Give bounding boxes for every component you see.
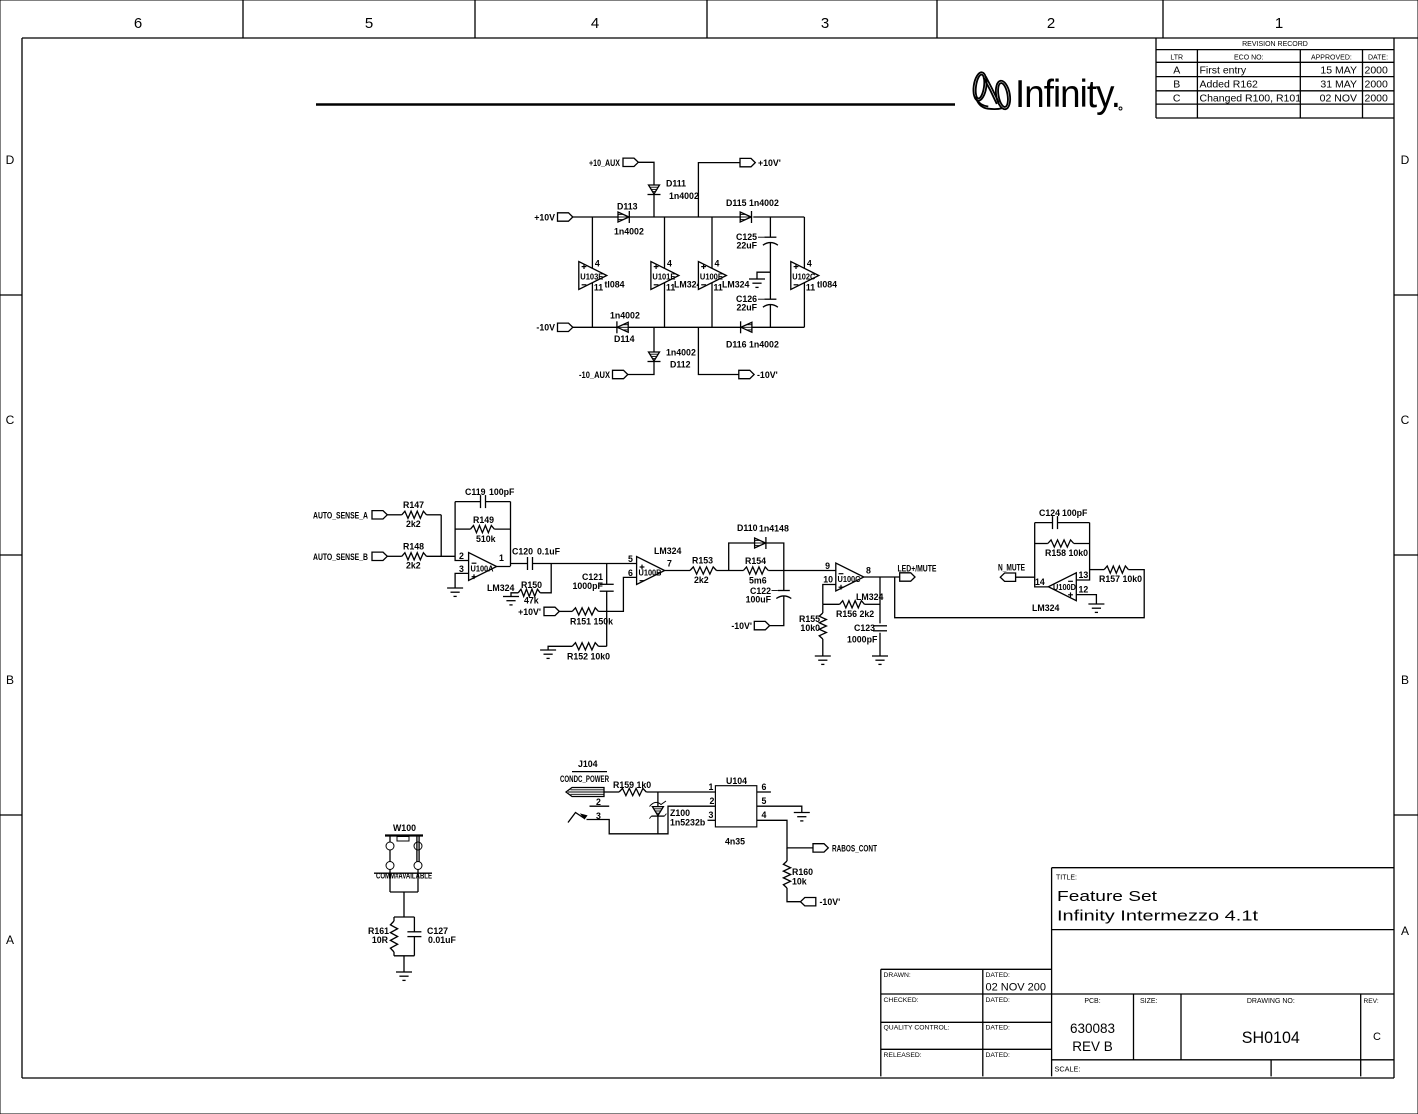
svg-text:D113: D113 xyxy=(617,202,638,212)
svg-text:+10_AUX: +10_AUX xyxy=(589,158,620,168)
capacitor C125 22uF xyxy=(736,232,778,251)
svg-text:DATE:: DATE: xyxy=(1368,54,1388,61)
wire R147 to junction xyxy=(427,514,442,516)
svg-text:REVISION RECORD: REVISION RECORD xyxy=(1242,41,1308,48)
svg-text:REV:: REV: xyxy=(1364,998,1379,1005)
svg-text:D116: D116 xyxy=(726,340,747,350)
svg-text:0.1uF: 0.1uF xyxy=(537,547,561,557)
net LED+/MUTE flag xyxy=(898,564,937,582)
connector W100 xyxy=(385,823,423,870)
svg-text:1n4002: 1n4002 xyxy=(614,227,644,237)
svg-text:RELEASED:: RELEASED: xyxy=(884,1052,922,1059)
svg-text:11: 11 xyxy=(806,282,815,292)
svg-text:Infinity.: Infinity. xyxy=(1015,73,1120,116)
svg-text:2: 2 xyxy=(459,551,464,561)
wire to ground (W100 RC) xyxy=(403,956,405,972)
svg-text:U100E: U100E xyxy=(700,273,723,282)
jack pin 2 stub xyxy=(590,797,610,807)
capacitor C126 22uF xyxy=(736,294,778,313)
svg-text:C: C xyxy=(1373,1031,1381,1043)
resistor R150 47k xyxy=(511,564,551,606)
title block xyxy=(881,868,1395,1077)
svg-text:7: 7 xyxy=(667,559,672,569)
zener Z100 1n5232b xyxy=(649,792,705,834)
net N_MUTE flag xyxy=(998,563,1025,582)
diode D112 1n4002 xyxy=(648,348,696,370)
svg-text:0.01uF: 0.01uF xyxy=(428,935,456,945)
resistor R149 510k xyxy=(455,515,510,544)
svg-text:PCB:: PCB: xyxy=(1084,998,1100,1005)
wire U100A pin 3 to ground xyxy=(455,573,469,588)
resistor R153 2k2 xyxy=(690,556,717,586)
svg-text:AUTO_SENSE_A: AUTO_SENSE_A xyxy=(313,510,368,520)
capacitor C123 1000pF xyxy=(847,623,887,645)
svg-text:10k: 10k xyxy=(792,877,807,887)
svg-text:tl084: tl084 xyxy=(817,280,837,290)
wire -10V rail (bottom) xyxy=(573,326,805,328)
svg-text:Added R162: Added R162 xyxy=(1200,79,1259,91)
svg-text:B: B xyxy=(6,673,14,687)
svg-text:QUALITY CONTROL:: QUALITY CONTROL: xyxy=(884,1025,950,1032)
wire U100B output to R153 xyxy=(665,570,690,572)
wire R159 to U104 pin 1 xyxy=(646,791,715,793)
svg-text:12: 12 xyxy=(1079,584,1089,594)
wire U100C output to R157 (long) xyxy=(895,570,1144,618)
svg-text:1n4002: 1n4002 xyxy=(610,311,640,321)
svg-text:U101E: U101E xyxy=(652,273,675,282)
svg-text:02 NOV 200: 02 NOV 200 xyxy=(986,982,1047,994)
svg-text:R149: R149 xyxy=(473,515,494,525)
ground (U104 pin 5) xyxy=(794,813,810,821)
svg-text:14: 14 xyxy=(1035,577,1045,587)
svg-text:15 MAY: 15 MAY xyxy=(1320,64,1357,76)
op-amp U100E (power pins, LM324) xyxy=(698,217,749,327)
svg-text:1000pF: 1000pF xyxy=(847,635,878,645)
svg-text:100uF: 100uF xyxy=(746,595,772,605)
wire U100A output to C120 xyxy=(497,564,528,567)
resistor R156 2k2 xyxy=(823,601,880,619)
svg-text:D110: D110 xyxy=(737,523,758,533)
resistor R158 10k0 xyxy=(1035,540,1090,558)
svg-text:REV B: REV B xyxy=(1072,1039,1113,1054)
net -10V_prime flag (C122) xyxy=(731,621,769,631)
svg-text:02 NOV: 02 NOV xyxy=(1320,92,1357,104)
svg-text:CHECKED:: CHECKED: xyxy=(884,997,919,1004)
svg-text:1: 1 xyxy=(709,782,714,792)
capacitor C121 1000pF xyxy=(573,572,614,591)
net COMM#AVAILABLE label xyxy=(374,872,432,881)
svg-text:R152 10k0: R152 10k0 xyxy=(567,652,610,662)
svg-text:4: 4 xyxy=(591,15,599,32)
svg-text:R158 10k0: R158 10k0 xyxy=(1045,548,1088,558)
resistor R161 10R xyxy=(368,917,414,956)
svg-text:6: 6 xyxy=(134,15,142,32)
wire U104 pin 5 to ground xyxy=(757,806,802,812)
svg-text:DATED:: DATED: xyxy=(986,972,1011,979)
svg-text:3: 3 xyxy=(459,564,464,574)
svg-text:LTR: LTR xyxy=(1170,54,1183,61)
svg-text:2: 2 xyxy=(596,797,601,807)
wire U100D feedback right vertical / pin 13 xyxy=(1076,523,1089,580)
svg-text:4: 4 xyxy=(807,259,812,269)
wire U100C output xyxy=(864,576,900,578)
svg-text:31 MAY: 31 MAY xyxy=(1320,79,1357,91)
svg-text:C124: C124 xyxy=(1039,508,1060,518)
svg-text:Z100: Z100 xyxy=(670,808,690,818)
net -10V_prime flag (power) xyxy=(739,370,778,380)
diode D113 1n4002 xyxy=(614,202,644,237)
svg-text:U103E: U103E xyxy=(580,273,603,282)
net -10_AUX flag xyxy=(579,370,628,380)
svg-text:CONDC_POWER: CONDC_POWER xyxy=(560,774,609,784)
net +10V_prime flag (R151) xyxy=(518,607,559,617)
svg-text:3: 3 xyxy=(821,15,829,32)
svg-text:4: 4 xyxy=(595,259,600,269)
jack pin 3 tip switch xyxy=(568,811,601,823)
svg-text:13: 13 xyxy=(1079,570,1089,580)
capacitor C119 100pF xyxy=(465,487,515,508)
svg-text:C: C xyxy=(6,413,15,427)
svg-text:3: 3 xyxy=(709,810,714,820)
wire C120 to U100B pin 5 xyxy=(533,563,637,565)
net AUTO_SENSE_A flag xyxy=(313,510,387,520)
svg-text:2: 2 xyxy=(710,796,715,806)
svg-text:U100B: U100B xyxy=(639,569,662,578)
wire U100D feedback left vertical / output xyxy=(1035,523,1049,587)
svg-text:-10_AUX: -10_AUX xyxy=(579,370,610,380)
svg-text:10R: 10R xyxy=(372,935,389,945)
ground (W100 RC) xyxy=(396,972,412,980)
capacitor C120 0.1uF xyxy=(512,547,561,571)
op-amp U100C LM324 xyxy=(823,561,883,602)
net RABOS_CONT flag xyxy=(813,843,877,853)
wire feedback top (C119) xyxy=(455,501,510,503)
svg-text:1n4148: 1n4148 xyxy=(759,524,789,534)
svg-text:1n4002: 1n4002 xyxy=(666,348,696,358)
svg-text:1n4002: 1n4002 xyxy=(749,198,779,208)
wire riser to +10V prime xyxy=(698,163,740,217)
jack J104 barrel xyxy=(566,788,604,797)
svg-text:B: B xyxy=(1173,79,1180,91)
svg-text:R147: R147 xyxy=(403,500,424,510)
svg-text:R157 10k0: R157 10k0 xyxy=(1099,574,1142,584)
svg-text:630083: 630083 xyxy=(1070,1021,1115,1036)
svg-text:Feature Set: Feature Set xyxy=(1057,889,1157,905)
svg-text:A: A xyxy=(6,933,14,947)
resistor R147 2k2 xyxy=(402,500,427,529)
svg-text:2000: 2000 xyxy=(1365,79,1389,91)
svg-text:22uF: 22uF xyxy=(736,241,757,251)
svg-text:R148: R148 xyxy=(403,542,424,552)
svg-text:DATED:: DATED: xyxy=(986,1025,1011,1032)
svg-text:U100D: U100D xyxy=(1053,583,1076,592)
svg-text:U102C: U102C xyxy=(792,273,815,282)
optocoupler U104 4n35 xyxy=(708,776,771,847)
svg-text:5: 5 xyxy=(762,796,767,806)
svg-text:COMM#AVAILABLE: COMM#AVAILABLE xyxy=(376,872,432,881)
svg-text:LM324: LM324 xyxy=(654,546,681,556)
svg-text:10k0: 10k0 xyxy=(800,623,820,633)
svg-text:LM324: LM324 xyxy=(722,280,749,290)
wire +10V rail (top) xyxy=(573,216,805,218)
svg-text:1: 1 xyxy=(1275,15,1283,32)
op-amp U102C (power pins, tl084) xyxy=(791,217,837,327)
svg-text:1: 1 xyxy=(499,553,504,563)
diode D110 1n4148 xyxy=(737,523,789,549)
svg-text:DRAWING NO:: DRAWING NO: xyxy=(1247,998,1295,1005)
svg-text:D114: D114 xyxy=(614,334,635,344)
svg-text:D: D xyxy=(1401,153,1410,167)
wire -10 rail to D112 xyxy=(653,327,655,352)
svg-text:DATED:: DATED: xyxy=(986,997,1011,1004)
svg-text:U104: U104 xyxy=(726,776,747,786)
svg-text:8: 8 xyxy=(866,566,871,576)
wire feedback left vertical / pin 2 xyxy=(455,502,469,561)
wire jack pin3 to U104 pin 2 xyxy=(587,806,716,834)
net +10_AUX flag xyxy=(589,158,638,168)
svg-text:SH0104: SH0104 xyxy=(1242,1028,1300,1047)
svg-text:+10V': +10V' xyxy=(758,158,781,168)
svg-text:C119: C119 xyxy=(465,487,486,497)
connector J104 CONDC_POWER label xyxy=(560,759,609,784)
svg-text:2000: 2000 xyxy=(1365,92,1389,104)
wire D110 bypass xyxy=(729,543,784,571)
diode D111 1n4002 xyxy=(648,179,699,202)
net +10V flag xyxy=(534,212,573,222)
ground (U100D pin 12) xyxy=(1088,604,1104,612)
wire U104 pin 4 to RABOS_CONT node xyxy=(757,820,813,848)
wire D111 cathode to +10 rail xyxy=(653,195,655,218)
wire C122 branch xyxy=(770,571,784,626)
svg-text:DRAWN:: DRAWN: xyxy=(884,972,911,979)
svg-text:B: B xyxy=(1401,673,1409,687)
op-amp U100D LM324 (left facing) xyxy=(1032,570,1088,613)
net -10V_prime flag (R160) xyxy=(801,897,841,907)
resistor R157 10k0 xyxy=(1090,566,1143,584)
svg-text:-10V': -10V' xyxy=(820,897,841,907)
svg-text:+10V': +10V' xyxy=(518,607,541,617)
svg-text:2: 2 xyxy=(1047,15,1055,32)
wire output node to C123 xyxy=(879,577,881,656)
wire U100C pin 10 to R155/R156 xyxy=(823,585,836,605)
svg-text:C: C xyxy=(1401,413,1410,427)
svg-text:4: 4 xyxy=(762,810,767,820)
svg-text:100pF: 100pF xyxy=(1062,508,1088,518)
svg-text:APPROVED:: APPROVED: xyxy=(1311,54,1352,61)
wire R151/C121/R152 node to U100B pin 6 xyxy=(599,577,637,611)
revision record table xyxy=(1156,38,1394,118)
wire jack pin1 to R159 xyxy=(604,791,619,793)
wire R148 to U100A pin 2 node xyxy=(427,555,456,557)
svg-text:2k2: 2k2 xyxy=(406,519,421,529)
resistor R154 5m6 xyxy=(743,556,768,586)
svg-text:5: 5 xyxy=(628,554,633,564)
wire D112 to -10_AUX flag xyxy=(628,362,654,375)
svg-text:5: 5 xyxy=(365,15,373,32)
svg-text:TITLE:: TITLE: xyxy=(1056,875,1077,882)
svg-text:2000: 2000 xyxy=(1365,64,1389,76)
op-amp U103E (power pins, tl084) xyxy=(579,217,625,327)
Infinity logo xyxy=(972,71,1012,110)
svg-text:LED+/MUTE: LED+/MUTE xyxy=(898,564,937,574)
svg-text:9: 9 xyxy=(825,561,830,571)
svg-text:R156 2k2: R156 2k2 xyxy=(836,609,874,619)
resistor R160 10k xyxy=(783,848,813,902)
svg-text:C: C xyxy=(1173,92,1181,104)
svg-text:First entry: First entry xyxy=(1200,64,1247,76)
wire U100D pin 12 to ground xyxy=(1076,595,1096,604)
svg-text:R150: R150 xyxy=(521,580,542,590)
resistor R151 150k xyxy=(559,608,613,627)
svg-text:RABOS_CONT: RABOS_CONT xyxy=(832,843,877,853)
wire R153 to node B xyxy=(717,570,744,572)
svg-text:10: 10 xyxy=(823,574,833,584)
svg-text:R154: R154 xyxy=(745,556,766,566)
diode D114 1n4002 xyxy=(610,311,640,345)
svg-text:ECO NO:: ECO NO: xyxy=(1234,54,1264,61)
svg-text:R160: R160 xyxy=(792,867,813,877)
horizontal rule xyxy=(316,103,955,105)
svg-text:D: D xyxy=(6,153,15,167)
svg-text:2k2: 2k2 xyxy=(694,575,709,585)
net +10V_prime flag (top) xyxy=(740,158,781,168)
resistor R152 10k0 xyxy=(548,611,610,661)
op-amp U100B LM324 xyxy=(628,546,681,585)
wire -10 rail to -10V prime flag xyxy=(698,327,738,374)
svg-text:1000pF: 1000pF xyxy=(573,581,604,591)
svg-text:AUTO_SENSE_B: AUTO_SENSE_B xyxy=(313,552,368,562)
svg-text:Changed R100, R101: Changed R100, R101 xyxy=(1200,92,1302,104)
net -10V flag xyxy=(536,323,572,333)
svg-text:N_MUTE: N_MUTE xyxy=(998,563,1025,573)
wire N_MUTE to U100D xyxy=(1016,576,1035,578)
ground (R152) xyxy=(540,650,556,658)
svg-text:-10V': -10V' xyxy=(731,621,752,631)
svg-text:U100C: U100C xyxy=(838,575,861,584)
wire feedback right vertical xyxy=(510,502,512,566)
svg-text:W100: W100 xyxy=(393,823,416,833)
svg-text:1n4002: 1n4002 xyxy=(749,340,779,350)
svg-text:47k: 47k xyxy=(524,596,539,606)
svg-text:D111: D111 xyxy=(666,179,686,189)
resistor R155 10k0 xyxy=(799,604,826,656)
svg-text:1n5232b: 1n5232b xyxy=(670,818,706,828)
wire AUTO_SENSE_A to R147 xyxy=(387,514,402,516)
resistor R148 2k2 xyxy=(402,542,427,571)
svg-text:U100A: U100A xyxy=(471,565,494,574)
svg-text:6: 6 xyxy=(762,782,767,792)
svg-text:LM324: LM324 xyxy=(1032,603,1059,613)
wire C125/C126 branch xyxy=(769,217,771,327)
wire W100 pins to R161/C127 xyxy=(390,870,418,918)
wire AUTO_SENSE_B to R148 xyxy=(387,555,402,557)
capacitor C124 100pF xyxy=(1039,508,1088,529)
svg-text:4n35: 4n35 xyxy=(725,837,745,847)
svg-text:4: 4 xyxy=(715,259,720,269)
svg-text:J104: J104 xyxy=(578,759,598,769)
svg-text:DATED:: DATED: xyxy=(986,1052,1011,1059)
svg-text:C120: C120 xyxy=(512,547,533,557)
op-amp U101E (power pins, LM324) xyxy=(651,217,702,327)
capacitor C127 0.01uF xyxy=(407,917,456,956)
svg-text:D112: D112 xyxy=(670,360,691,370)
diode D115 1n4002 xyxy=(726,198,779,223)
diode D116 1n4002 xyxy=(726,321,779,349)
svg-text:D115: D115 xyxy=(726,198,747,208)
svg-text:5m6: 5m6 xyxy=(749,576,767,586)
svg-text:+10V: +10V xyxy=(534,212,555,222)
ground (between C125/C126) xyxy=(749,272,770,287)
svg-text:LM324: LM324 xyxy=(487,583,514,593)
svg-text:11: 11 xyxy=(594,282,603,292)
capacitor C122 100uF xyxy=(746,586,792,605)
wire U100D feedback top (C124) xyxy=(1035,522,1090,524)
svg-text:R153: R153 xyxy=(692,556,713,566)
svg-text:100pF: 100pF xyxy=(489,487,515,497)
svg-text:R159 1k0: R159 1k0 xyxy=(613,780,651,790)
net AUTO_SENSE_B flag xyxy=(313,552,387,562)
svg-text:6: 6 xyxy=(628,568,633,578)
svg-text:-10V': -10V' xyxy=(757,370,778,380)
svg-text:2k2: 2k2 xyxy=(406,561,421,571)
svg-text:22uF: 22uF xyxy=(736,303,757,313)
svg-text:SCALE:: SCALE: xyxy=(1055,1065,1081,1074)
ground (R150) xyxy=(503,597,519,605)
op-amp U100A LM324 xyxy=(459,551,514,593)
svg-text:A: A xyxy=(1401,924,1409,938)
svg-text:tl084: tl084 xyxy=(605,280,625,290)
resistor R159 1k0 xyxy=(613,780,651,796)
svg-text:SIZE:: SIZE: xyxy=(1140,998,1158,1005)
svg-text:C123: C123 xyxy=(854,623,875,633)
svg-text:LM324: LM324 xyxy=(674,280,701,290)
wire +10_AUX to D111 xyxy=(638,162,654,185)
wire node C to U100C pin 9 xyxy=(768,570,836,572)
wire junction A-B xyxy=(440,515,442,557)
ground (R155) xyxy=(815,656,831,664)
ground (C123) xyxy=(872,656,888,664)
svg-text:4: 4 xyxy=(667,259,672,269)
svg-text:510k: 510k xyxy=(476,534,496,544)
ground (U100A pin 3) xyxy=(447,588,463,596)
svg-text:-10V: -10V xyxy=(536,323,555,333)
svg-text:1n4002: 1n4002 xyxy=(669,191,699,201)
svg-text:Infinity Intermezzo 4.1t: Infinity Intermezzo 4.1t xyxy=(1057,909,1258,925)
wire C121 branch xyxy=(606,564,608,612)
svg-text:A: A xyxy=(1173,64,1180,76)
